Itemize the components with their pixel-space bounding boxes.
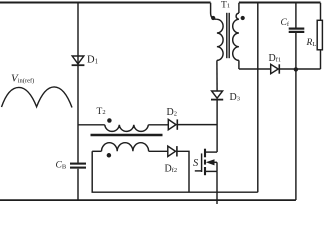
wire: clamp rail vertical — [257, 3, 259, 192]
transformer T1 primary winding — [211, 3, 223, 91]
wire: bottom return rail — [0, 199, 296, 201]
wire: Df1 cathode to output node — [279, 68, 320, 70]
wire: output top rail — [239, 1, 321, 3]
svg-text:Df2: Df2 — [165, 164, 178, 175]
input sine waveform — [2, 87, 73, 108]
diode D3 — [211, 91, 223, 100]
svg-text:RL: RL — [306, 38, 317, 48]
wire: input top rail — [0, 1, 211, 3]
transformer T1 core bars — [227, 13, 229, 58]
svg-text:S: S — [193, 158, 199, 169]
T2 primary polarity dot — [107, 118, 112, 123]
svg-text:Df1: Df1 — [269, 53, 282, 64]
svg-text:D2: D2 — [167, 107, 177, 118]
transformer T2 secondary winding — [92, 143, 168, 152]
svg-text:T2: T2 — [97, 107, 106, 117]
T1 secondary polarity dot — [241, 16, 245, 20]
T1 primary polarity dot — [211, 16, 215, 20]
wire: D3 cathode to MOSFET drain — [216, 100, 218, 152]
wire: Df2 cathode down to return — [177, 151, 189, 192]
capacitor CB — [70, 164, 86, 168]
node: output junction dot — [294, 67, 298, 71]
transformer T2 core bar — [91, 134, 163, 137]
svg-text:Cf: Cf — [281, 18, 290, 28]
svg-text:CB: CB — [56, 160, 67, 170]
diode Df2 — [168, 146, 177, 156]
svg-text:D3: D3 — [230, 92, 240, 103]
svg-text:Vin(ref): Vin(ref) — [11, 73, 34, 85]
svg-text:T1: T1 — [221, 0, 230, 10]
resistor RL — [317, 3, 322, 69]
diode Df1 — [271, 64, 280, 73]
transformer T2 primary winding — [78, 125, 168, 132]
diode D1 — [72, 56, 85, 65]
transformer T1 secondary winding — [233, 3, 239, 69]
wire: MOSFET source to bottom — [216, 171, 218, 204]
svg-text:D1: D1 — [87, 55, 98, 66]
MOSFET S — [195, 149, 217, 176]
wire: T2 return bottom — [92, 151, 258, 192]
capacitor Cf — [289, 3, 305, 200]
wire: D2 cathode to drain node — [177, 124, 217, 126]
diode D2 — [168, 119, 177, 129]
wire: left input branch vertical — [77, 3, 79, 200]
wire: secondary return to Df1 — [239, 68, 271, 70]
T2 secondary polarity dot — [107, 153, 112, 158]
